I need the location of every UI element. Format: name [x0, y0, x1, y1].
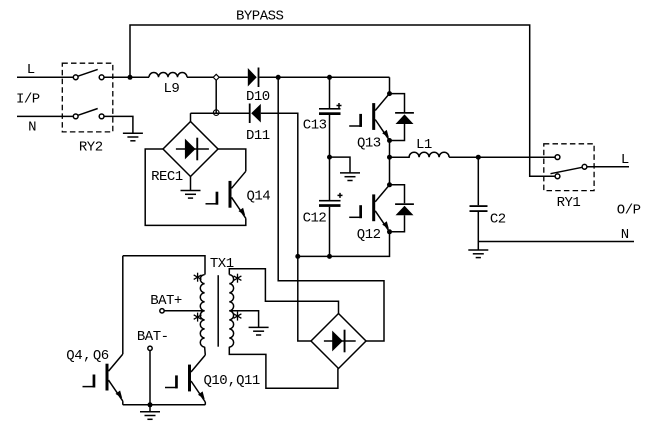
svg-text:D11: D11: [246, 128, 270, 144]
svg-text:C13: C13: [303, 118, 327, 134]
junction circle-cross at rectifier node: [213, 110, 219, 116]
wire from D10 node down and around to charger bridge right corner: [278, 77, 384, 341]
wire L input to RY2: [17, 76, 73, 78]
transformer TX1 secondary winding: [229, 275, 233, 347]
transformer TX1 primary winding: [200, 275, 204, 347]
wire C12 bottom to bottom rail: [329, 207, 331, 257]
relay RY2 L contact left: [73, 75, 78, 80]
ground at output: [468, 250, 488, 258]
inductor L1: [390, 152, 450, 157]
wire Q13 emitter to midpoint: [389, 141, 391, 158]
relay RY1 switch blade: [551, 167, 583, 173]
transistor Q12: [349, 185, 389, 232]
ground at secondary tap: [249, 327, 269, 335]
wire REC1 right corner to Q14 collector: [218, 149, 246, 171]
svg-text:BAT+: BAT+: [150, 293, 182, 309]
wire N input to RY2: [17, 115, 73, 117]
junction node Q13 emitter: [387, 138, 392, 143]
junction diamond at L9 output node: [213, 74, 219, 80]
svg-text:REC1: REC1: [151, 169, 183, 185]
capacitor C12: [303, 193, 343, 227]
wire from L9 node down to rectifier line: [215, 80, 217, 113]
svg-text:Q10,Q11: Q10,Q11: [204, 373, 260, 389]
wire TX1 primary top from Q4 collector: [123, 256, 205, 275]
wire L9 to D10: [187, 76, 248, 78]
transistor Q13: [349, 94, 389, 141]
junction node Q12 collector: [387, 182, 392, 187]
svg-text:O/P: O/P: [617, 203, 641, 219]
terminal BAT- circle: [148, 346, 152, 350]
transistor Q14: [206, 171, 246, 218]
relay RY1 dashed box: [544, 144, 594, 191]
wire ground stub: [149, 405, 151, 412]
wire REC1 bottom stub to ground: [190, 177, 192, 191]
wire primary bottom to Q10 collector: [204, 347, 207, 355]
polarity mark primary top: [194, 273, 202, 282]
wire secondary bottom to charger bridge bottom corner: [229, 347, 338, 388]
bridge rectifier REC1 diamond: [163, 122, 218, 177]
bridge rectifier REC1 inner diode: [176, 138, 209, 161]
wire bottom rail to Q12 emitter: [298, 232, 390, 257]
relay RY2 dashed box: [62, 63, 113, 132]
svg-text:L9: L9: [164, 81, 180, 97]
wire BYPASS line from L-input node up over to RY1 lower contact: [130, 25, 555, 176]
wire RY1 to L output: [587, 166, 629, 168]
svg-text:BAT-: BAT-: [137, 329, 169, 345]
wire Q4 emitter to ground rail: [122, 401, 124, 405]
svg-text:C2: C2: [490, 212, 506, 228]
relay RY1 output contact: [582, 164, 587, 169]
junction node after D10: [276, 75, 281, 80]
svg-text:D10: D10: [246, 89, 270, 105]
wire D11 cathode to DC minus vertical down to charger bridge left corner: [261, 113, 311, 341]
wire REC1 top stub: [190, 113, 192, 121]
wire N output line: [478, 241, 634, 243]
junction node at L / bypass: [128, 75, 133, 80]
junction node between C13 and C12: [327, 155, 332, 160]
svg-text:BYPASS: BYPASS: [236, 9, 284, 25]
transistor Q10 Q11: [165, 355, 205, 402]
diode D11: [246, 104, 270, 145]
svg-text:N: N: [621, 227, 629, 243]
ground at RY2 N: [123, 133, 143, 141]
relay RY1 upper contact: [555, 155, 560, 160]
bridge rectifier charger diamond: [311, 314, 366, 369]
svg-text:RY1: RY1: [557, 195, 581, 211]
wire Q10 emitter to ground rail: [204, 402, 206, 405]
ground at REC1: [181, 191, 201, 199]
svg-text:Q13: Q13: [357, 136, 381, 152]
junction node at battery ground: [148, 402, 153, 407]
svg-text:I/P: I/P: [16, 92, 40, 108]
wire battery ground rail: [123, 404, 206, 406]
wire BAT- down to ground rail: [149, 351, 151, 405]
junction node at C2: [476, 155, 481, 160]
wire rectified line D11 anode side: [191, 112, 250, 114]
relay RY1 lower contact: [555, 174, 560, 179]
wire secondary top to charger bridge top corner: [229, 269, 338, 314]
svg-text:RY2: RY2: [79, 140, 103, 156]
wire midpoint down to Q12 collector: [389, 157, 391, 185]
junction node C12 at bottom rail: [327, 254, 332, 259]
svg-text:L: L: [621, 152, 629, 168]
junction node at bottom rail left: [295, 254, 300, 259]
inductor L9: [149, 73, 187, 78]
svg-text:L: L: [27, 62, 35, 78]
wire BAT+ to primary center tap: [164, 310, 204, 312]
diode across Q12: [390, 185, 414, 232]
wire mid node to ground: [330, 157, 351, 173]
wire REC1 left corner loop to Q14 emitter: [145, 149, 246, 225]
wire RY2 L output to junction: [104, 76, 149, 78]
svg-text:Q14: Q14: [247, 188, 271, 204]
junction node Q12 emitter: [387, 229, 392, 234]
relay RY2 N contact right: [99, 114, 104, 119]
svg-text:Q4,Q6: Q4,Q6: [66, 348, 108, 364]
wire C13 top stub: [329, 77, 331, 108]
polarity mark secondary bottom: [234, 312, 242, 321]
wire top rail down to Q13 collector: [389, 77, 391, 93]
capacitor C13: [303, 103, 342, 134]
junction node inverter midpoint: [387, 155, 392, 160]
transformer TX1 core: [217, 275, 219, 347]
wire secondary center tap to ground: [229, 311, 258, 328]
relay RY2 L contact right: [99, 75, 104, 80]
relay RY2 N contact left: [73, 114, 78, 119]
svg-text:C12: C12: [303, 211, 327, 227]
svg-text:L1: L1: [416, 137, 432, 153]
wire Q4 collector vertical: [122, 256, 124, 354]
terminal BAT+ circle: [160, 309, 164, 313]
svg-text:TX1: TX1: [210, 256, 234, 272]
polarity mark secondary top: [234, 274, 242, 283]
svg-text:N: N: [28, 120, 36, 136]
wire RY2 N output to ground: [104, 116, 133, 133]
ground at battery rail: [140, 412, 160, 420]
junction node Q13 collector: [387, 91, 392, 96]
ground at capacitor midpoint: [340, 173, 360, 181]
relay RY2 N switch blade: [78, 109, 98, 116]
svg-text:Q12: Q12: [357, 227, 381, 243]
diode D10: [246, 68, 270, 106]
wire C2 top stub: [477, 157, 479, 205]
capacitor C2: [470, 205, 506, 227]
wire C2 bottom to N output and ground: [477, 212, 479, 250]
transistor Q4 Q6: [83, 354, 123, 401]
relay RY2 L switch blade: [78, 69, 98, 76]
bridge rectifier charger inner diode: [324, 330, 356, 353]
wire L1 to RY1 upper contact: [449, 156, 555, 158]
diode across Q13: [390, 94, 414, 141]
wire C13 bottom to mid node: [329, 115, 331, 200]
polarity mark primary bottom: [194, 313, 202, 322]
junction node at C13 top: [327, 75, 332, 80]
wire D10 cathode to top rail: [259, 76, 389, 78]
